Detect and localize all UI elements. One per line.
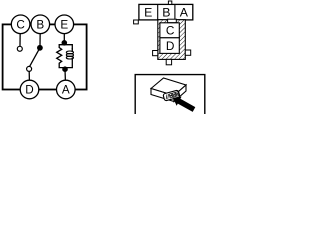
connector pinout: upper row housing (139, 4, 193, 20)
terminal E (55, 15, 74, 34)
wire: pivot down to terminal D (28, 71, 30, 81)
connector lock tab on top (168, 1, 171, 4)
relay 3D body: right face (174, 85, 186, 102)
junction dot: bottom node of resistor/coil (62, 66, 68, 72)
cavity D (160, 38, 179, 54)
switch arm from B contact to pivot (29, 48, 40, 67)
svg-text:B: B (36, 18, 44, 31)
connector mount tab below-left (134, 20, 139, 24)
junction dot: B fixed contact (37, 45, 43, 51)
bottom tab (166, 59, 171, 64)
relay 3D body: top face (151, 78, 186, 96)
svg-text:B: B (162, 6, 170, 20)
svg-text:D: D (166, 39, 175, 53)
connector lower body: hatched frame (158, 20, 186, 60)
contact (open) pivot above D (27, 66, 32, 71)
svg-text:C: C (166, 23, 175, 37)
wire: coil upper lead (71, 48, 73, 52)
wire: stub from terminal C down to fixed contact (19, 30, 21, 46)
svg-text:E: E (60, 18, 68, 31)
contact (open) under C (17, 46, 22, 51)
resistor (zigzag) left branch (57, 48, 62, 68)
wire: stub from terminal E down to coil junction (63, 30, 65, 45)
relay 3D body: left face (151, 89, 174, 102)
locator box (bottom right, open at bottom) (135, 75, 205, 116)
svg-text:A: A (62, 84, 70, 97)
notch at top of lower body (168, 19, 177, 22)
terminal B (31, 15, 50, 34)
wire: stub from terminal B down to fixed contact (39, 30, 41, 46)
side tab right (185, 50, 190, 55)
wire: top junction horizontal (59, 45, 72, 50)
wire: coil lower lead (71, 58, 73, 68)
wire: outer loop of relay internal circuit (3, 24, 87, 89)
svg-text:E: E (144, 6, 152, 20)
svg-text:D: D (25, 84, 33, 97)
wire: bottom node down to terminal A (64, 69, 66, 81)
svg-text:C: C (16, 18, 24, 31)
cavity C (160, 23, 179, 38)
side tab left (153, 51, 158, 56)
relay connector socket (163, 90, 180, 101)
pointer arrow (173, 97, 195, 112)
terminal D (20, 80, 39, 99)
terminal C (11, 15, 30, 34)
terminal A (57, 80, 76, 99)
wire: bottom junction horizontal (59, 66, 72, 69)
junction dot: top node of resistor/coil (62, 40, 68, 46)
inductor coil right branch: three flat loops (66, 51, 73, 59)
svg-text:A: A (180, 6, 189, 20)
